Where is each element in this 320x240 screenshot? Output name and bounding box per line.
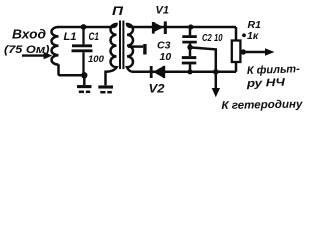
- svg-text:V1: V1: [156, 4, 169, 16]
- junction: output tap: [241, 49, 246, 54]
- svg-text:100: 100: [88, 54, 105, 65]
- junction: C3 bottom / rail: [187, 69, 192, 74]
- svg-text:Вход: Вход: [12, 27, 46, 42]
- wire: top rail from secondary to R1 corner: [131, 26, 237, 29]
- transformer core: [119, 21, 121, 70]
- arrow to LF filter: [241, 48, 275, 56]
- ground (tank): [77, 75, 92, 92]
- wire: L1 bottom lead and tank bottom rail: [59, 64, 85, 75]
- svg-text:(75 Ом): (75 Ом): [4, 44, 50, 56]
- resistor R1: [232, 27, 241, 72]
- junction: C1 top node: [81, 24, 87, 30]
- inductor L1: [51, 27, 58, 65]
- svg-text:10: 10: [160, 51, 172, 63]
- junction: tank bottom node: [81, 72, 87, 78]
- svg-text:С3: С3: [157, 39, 171, 51]
- arrow to heterodyne: [212, 88, 220, 97]
- transformer center tap wire: [128, 45, 143, 48]
- junction dot near R1: [242, 33, 246, 37]
- diode V2: [151, 66, 164, 78]
- svg-text:L1: L1: [64, 31, 77, 43]
- wire: top rail from L1 to transformer primary: [58, 26, 114, 29]
- input arrow to L1 tap: [22, 52, 52, 59]
- junction: top rail / C2: [188, 24, 193, 29]
- capacitor C2: [182, 27, 197, 56]
- diode V1: [153, 21, 165, 34]
- svg-text:П: П: [112, 4, 123, 18]
- wire: LO injection from C2-C3 node: [190, 47, 216, 89]
- junction: LO wire / bottom rail: [213, 69, 219, 75]
- svg-text:V2: V2: [149, 82, 165, 96]
- center tap terminal bar: [143, 44, 146, 55]
- capacitor C3: [182, 58, 197, 72]
- junction: C2-C3 midpoint: [187, 45, 192, 50]
- ground (transformer primary): [98, 71, 113, 93]
- transformer T1 secondary winding: [127, 24, 133, 72]
- svg-text:1к: 1к: [247, 30, 259, 42]
- svg-text:К фильт-: К фильт-: [247, 63, 301, 77]
- svg-text:К гетеродину: К гетеродину: [221, 99, 303, 112]
- transformer T1 primary winding: [106, 24, 117, 72]
- wire: bottom rail from secondary to R1: [133, 71, 236, 74]
- capacitor C1: [72, 27, 93, 75]
- svg-text:С1: С1: [89, 31, 100, 43]
- svg-text:ру НЧ: ру НЧ: [245, 77, 285, 90]
- svg-text:С2 10: С2 10: [202, 33, 223, 44]
